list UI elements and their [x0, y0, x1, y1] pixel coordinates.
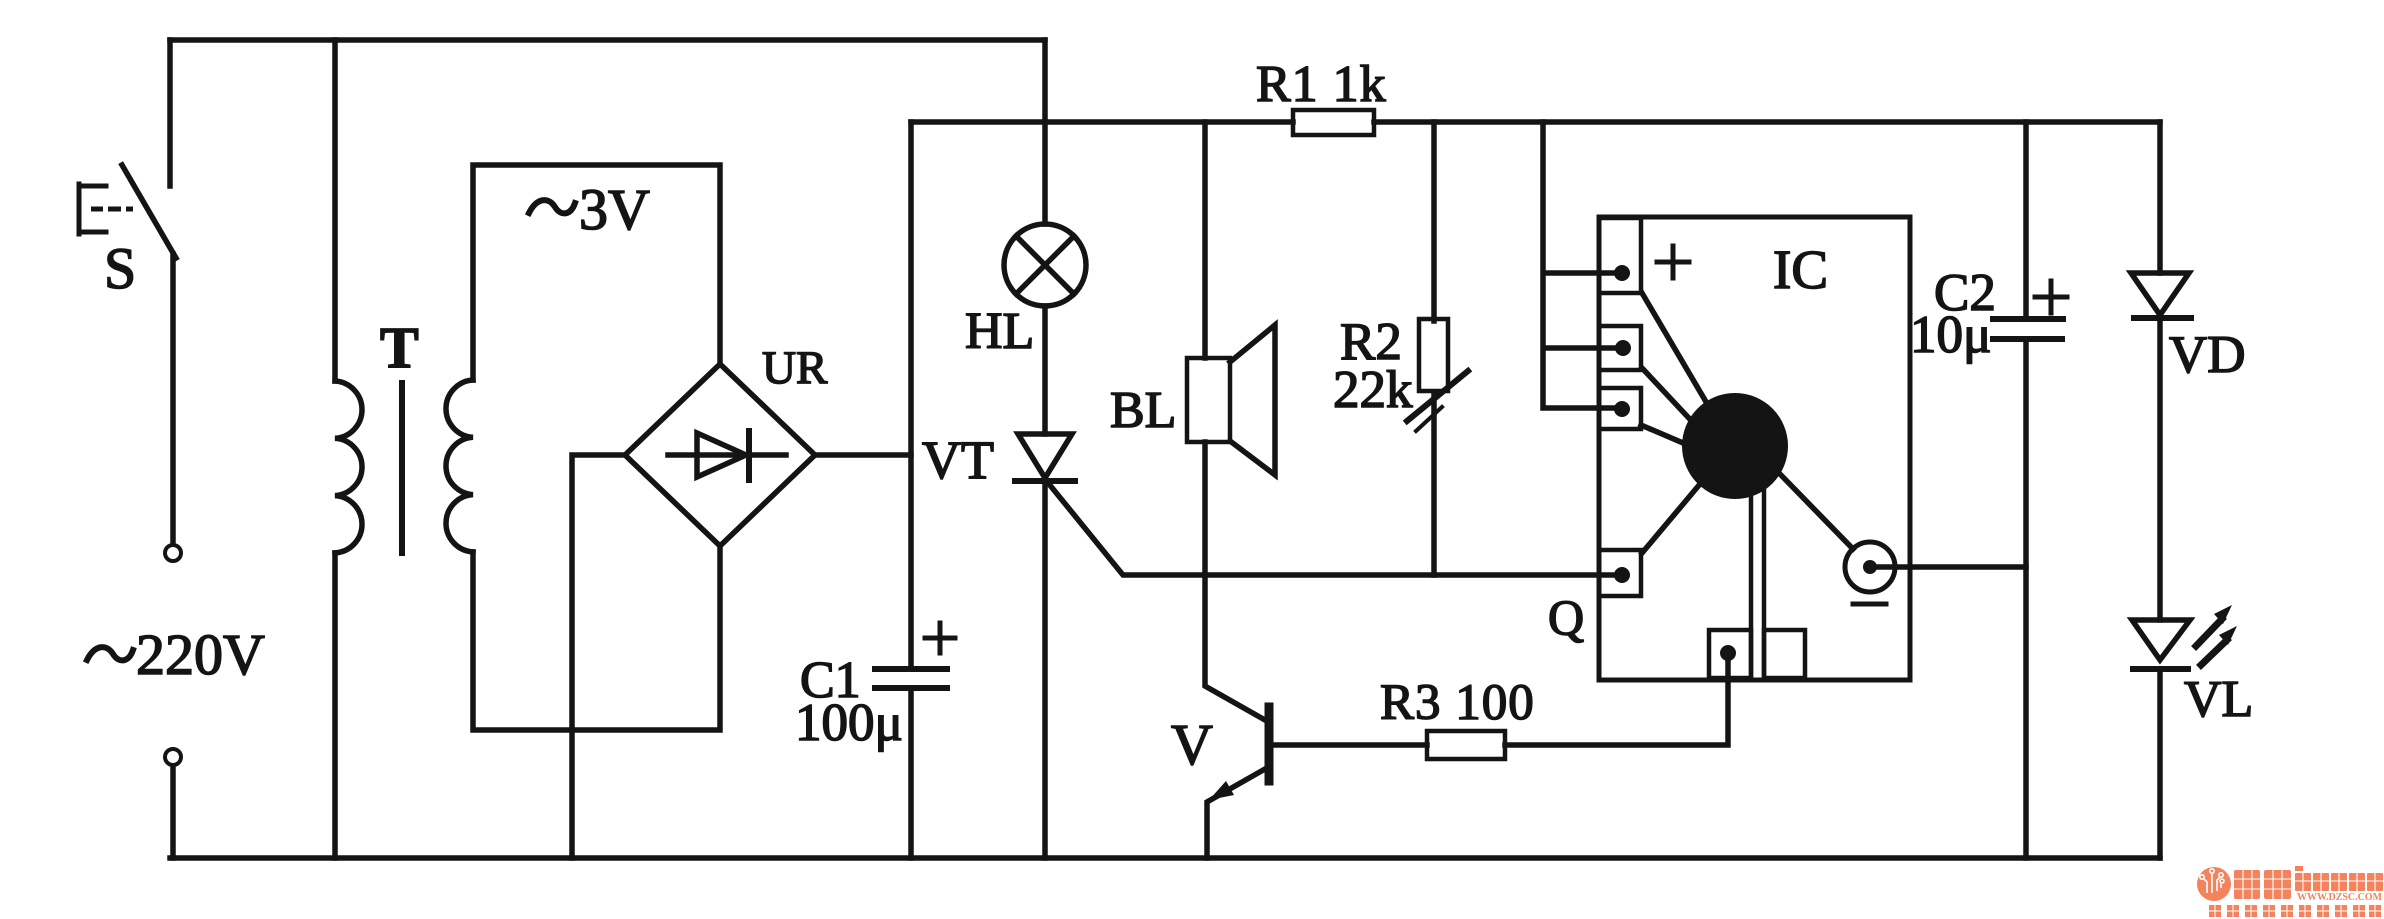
svg-text:3V: 3V	[579, 177, 650, 242]
label HL	[965, 303, 1034, 360]
wire R2 branch	[1431, 122, 1437, 575]
label ~3V	[529, 177, 650, 242]
capacitor C1	[875, 623, 955, 688]
wire bridge left vertex to bottom rail	[572, 455, 625, 858]
IC output terminal	[1845, 542, 1895, 604]
svg-text:BL: BL	[1110, 382, 1176, 439]
lamp HL	[1004, 224, 1086, 306]
svg-text:10μ: 10μ	[1910, 306, 1991, 364]
transformer T primary winding	[335, 40, 362, 858]
switch S	[79, 165, 181, 858]
label 100u	[795, 694, 903, 752]
label 22k	[1333, 361, 1413, 419]
svg-text:100μ: 100μ	[795, 694, 903, 752]
thyristor VT	[1015, 434, 1075, 858]
label ~220V	[87, 622, 265, 687]
svg-text:220V: 220V	[136, 622, 265, 687]
diode VD	[2131, 273, 2191, 620]
label VT	[922, 430, 994, 490]
wire lamp branch from top rail	[1042, 40, 1048, 224]
resistor R2	[1407, 319, 1468, 431]
IC pin 3 box	[1599, 388, 1641, 429]
wire bridge right vertex to DC bus	[815, 452, 911, 458]
svg-text:R1 1k: R1 1k	[1256, 56, 1387, 113]
label Q	[1548, 589, 1584, 645]
resistor R1	[1293, 110, 1374, 135]
label T	[380, 315, 419, 380]
svg-text:S: S	[104, 236, 136, 301]
label R3 100	[1380, 675, 1535, 731]
wire VD branch	[2157, 122, 2163, 273]
op-amp IC outline	[1599, 217, 1910, 680]
label 10u	[1910, 306, 1991, 364]
IC chip blob	[1682, 393, 1788, 499]
wire second rail	[911, 119, 2160, 125]
watermark logo	[2197, 866, 2383, 917]
IC plus mark	[1657, 246, 1689, 278]
label UR	[762, 342, 828, 394]
wire IC output to C2 branch	[1877, 564, 2026, 570]
svg-text:VT: VT	[922, 430, 994, 490]
wire speaker branch	[1202, 122, 1208, 358]
svg-text:VL: VL	[2184, 671, 2253, 728]
wire bottom rail	[170, 855, 2160, 861]
label R1 1k	[1256, 56, 1387, 113]
label R2	[1340, 313, 1402, 371]
wire top rail	[170, 37, 1045, 43]
svg-text:V: V	[1171, 712, 1213, 777]
svg-text:22k: 22k	[1333, 361, 1413, 419]
wire lamp to thyristor	[1042, 306, 1048, 434]
wire DC positive vertical (C1 branch)	[908, 122, 914, 858]
IC pin dots	[1614, 265, 1631, 583]
wire left drop to switch	[167, 40, 173, 186]
LED VL	[2132, 605, 2237, 858]
capacitor C2	[1993, 281, 2067, 339]
transistor V	[1207, 707, 1427, 858]
label C2	[1934, 264, 1996, 322]
svg-text:HL: HL	[965, 303, 1034, 360]
label BL	[1110, 382, 1176, 439]
svg-text:Q: Q	[1548, 589, 1584, 645]
svg-text:WWW.DZSC.COM: WWW.DZSC.COM	[2297, 892, 2382, 903]
label S	[104, 236, 136, 301]
label VL	[2184, 671, 2253, 728]
label V	[1171, 712, 1213, 777]
speaker BL	[1187, 325, 1275, 475]
label C1	[800, 652, 861, 709]
label VD	[2169, 326, 2246, 384]
svg-text:UR: UR	[762, 342, 828, 394]
svg-text:IC: IC	[1773, 239, 1828, 300]
IC bottom pin box with dot	[1709, 630, 1751, 678]
IC bottom pin box 2	[1764, 630, 1805, 678]
svg-text:VD: VD	[2169, 326, 2246, 384]
svg-text:R3 100: R3 100	[1380, 675, 1535, 731]
wire C2 branch	[2023, 122, 2029, 858]
IC pin 4 box Q	[1599, 550, 1641, 596]
transformer T secondary winding	[446, 165, 720, 730]
wire thyristor gate	[1049, 484, 1618, 575]
wire IC supply bus	[1543, 122, 1614, 408]
wire speaker to transistor collector	[1205, 442, 1265, 720]
label IC	[1773, 239, 1828, 300]
IC pin 2 box	[1599, 326, 1641, 370]
IC pin 1 box	[1599, 218, 1641, 293]
transformer T core	[399, 383, 405, 553]
resistor R3	[1427, 731, 1505, 759]
svg-text:T: T	[380, 315, 419, 380]
IC bond wires	[1641, 293, 1853, 678]
bridge rectifier UR	[625, 364, 815, 546]
wire R3 to IC bottom pin	[1505, 659, 1728, 745]
